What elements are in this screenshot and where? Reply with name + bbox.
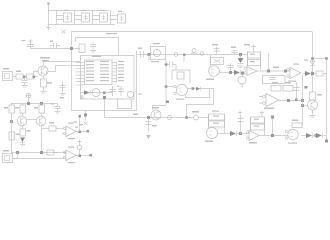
- node Y: [311, 72, 314, 75]
- transistor Q3: [127, 91, 133, 97]
- pin 7: [76, 80, 125, 81]
- wire U2A bias drop: [74, 115, 83, 131]
- transistor Q8: [238, 72, 246, 88]
- capacitor C18 polarized: [191, 49, 198, 54]
- label: [273, 67, 279, 69]
- node H2: [183, 54, 186, 57]
- op-amp U4: [259, 94, 279, 110]
- capacitor C3: [92, 10, 108, 24]
- power flag 3: [251, 45, 256, 53]
- wire pin bus: [116, 62, 118, 82]
- op-amp U2A: [62, 123, 76, 140]
- node E: [103, 92, 106, 95]
- node T: [239, 53, 242, 56]
- node F: [148, 53, 151, 56]
- node AB: [315, 134, 318, 137]
- node H: [147, 116, 150, 119]
- label Q3: [138, 94, 142, 95]
- capacitor C11: [138, 48, 144, 58]
- wire top link: [313, 58, 327, 60]
- pin 3: [76, 67, 125, 68]
- wire U4 out: [279, 100, 302, 102]
- wire inner feed: [76, 38, 119, 56]
- op-amp U6B: [246, 131, 259, 144]
- wire stub row8: [76, 84, 85, 86]
- resistor R12: [47, 150, 58, 155]
- wire rail: [210, 55, 212, 67]
- wire power drop: [271, 116, 274, 138]
- diode D2: [20, 138, 25, 147]
- label: [133, 114, 138, 116]
- shield box U1: [81, 56, 135, 100]
- label Q9: [305, 86, 308, 89]
- wire U8 out: [188, 88, 214, 90]
- resistor R10: [9, 132, 20, 140]
- pin 2: [76, 64, 125, 65]
- wire U6B out: [259, 135, 288, 137]
- pin 1: [76, 61, 125, 62]
- resistor R3: [27, 74, 34, 79]
- ground symbol: [46, 25, 51, 30]
- node circle I2: [200, 52, 204, 56]
- wire Q7 emitter: [41, 126, 43, 152]
- node V: [284, 70, 287, 73]
- node K2: [185, 116, 188, 119]
- op-amp U1 body: [85, 60, 113, 85]
- capacitor C14 polarized: [77, 145, 82, 155]
- capacitor C8: [22, 78, 28, 87]
- wire Q6-Q7 link: [27, 119, 37, 121]
- connector J2: [3, 150, 18, 163]
- transistor Q9: [301, 100, 318, 110]
- capacitor C12: [146, 118, 158, 139]
- node W: [287, 99, 290, 102]
- wire to lower bus: [105, 99, 194, 118]
- node circle S2: [192, 111, 208, 120]
- capacitor C21: [231, 47, 238, 55]
- wire U3B out: [257, 70, 290, 72]
- net junction X: [62, 30, 66, 34]
- node B: [70, 47, 73, 50]
- resistor R21: [211, 58, 224, 65]
- capacitor C4: [110, 10, 126, 24]
- pin 5: [76, 74, 125, 75]
- diode D8: [230, 131, 240, 136]
- wire feedback frame: [172, 70, 190, 83]
- op-amp U2B: [13, 147, 76, 164]
- op-amp U8: [165, 85, 188, 104]
- resistor R16: [283, 82, 293, 91]
- resistor R9: [20, 126, 31, 136]
- capacitor C22 polarized: [117, 86, 124, 97]
- resistor R1: [79, 44, 85, 53]
- wire stub down: [183, 55, 185, 63]
- capacitor C7: [90, 42, 96, 52]
- capacitor C17: [238, 111, 244, 134]
- ground Q9: [310, 110, 316, 117]
- wire emitter branch: [47, 66, 81, 76]
- transistor Q4 box: [151, 43, 166, 62]
- transistor Q6: [17, 116, 27, 126]
- node L: [10, 120, 13, 123]
- op-amp U3A: [206, 66, 219, 80]
- node M: [16, 151, 19, 154]
- resistor R15: [271, 82, 281, 91]
- wire: [240, 133, 250, 135]
- label net VCC: [106, 33, 117, 34]
- diode D9: [301, 133, 313, 138]
- wire: [268, 53, 270, 70]
- capacitor C1: [56, 10, 72, 24]
- wire stub: [148, 55, 150, 61]
- transistor Q2: [92, 89, 100, 97]
- wire to lower channel: [187, 89, 214, 118]
- wire under-box loop: [118, 99, 132, 109]
- wire outer box right: [136, 51, 138, 111]
- wire: [34, 76, 39, 78]
- wire main top bus: [72, 31, 313, 33]
- capacitor C15: [228, 63, 234, 74]
- node VCC top-left: [48, 3, 50, 5]
- resistor R4: [41, 76, 53, 93]
- wire top rail: [48, 10, 109, 12]
- node C: [23, 76, 26, 79]
- op-amp U5: [287, 64, 301, 82]
- op-amp U7: [285, 129, 298, 143]
- resistor R17: [314, 71, 327, 76]
- wire bottom rail: [11, 152, 66, 154]
- wire bottom rail: [48, 24, 115, 26]
- resistor R19 feedback: [292, 120, 302, 128]
- diode D6: [303, 71, 312, 76]
- capacitor C19 on mid vertical: [165, 62, 176, 71]
- node A: [103, 96, 106, 99]
- wire right vertical: [326, 59, 328, 142]
- diode D1: [84, 90, 90, 95]
- connector J1: [3, 68, 17, 81]
- resistor network RN4: [251, 117, 265, 135]
- label U1: [92, 56, 101, 58]
- wire Q6 collector: [22, 113, 24, 117]
- wire feedback loop: [186, 89, 210, 98]
- wire base tap: [34, 72, 39, 77]
- diode D3: [234, 70, 244, 75]
- node AA: [239, 132, 242, 135]
- diode D5 vertical: [238, 55, 244, 68]
- resistor R6: [4, 103, 15, 113]
- label pins: [81, 96, 84, 99]
- pin 4: [76, 71, 125, 72]
- resistor R2: [16, 71, 23, 80]
- power flag 4: [260, 111, 264, 118]
- wire U3A out: [219, 72, 234, 74]
- node circle G: [174, 53, 178, 57]
- capacitor C16: [294, 82, 300, 101]
- op-amp U3B: [244, 67, 257, 76]
- node K: [40, 102, 43, 105]
- wire mid vertical: [165, 60, 167, 106]
- diode D10: [313, 133, 327, 138]
- wire right bus drop: [312, 32, 314, 93]
- wire U6A out: [218, 133, 231, 135]
- resistor network RN2: [248, 52, 261, 70]
- capacitor C20: [212, 44, 220, 54]
- capacitor C10: [110, 86, 116, 96]
- resistor R5: [177, 72, 184, 79]
- node U: [267, 70, 270, 73]
- node J: [27, 102, 30, 105]
- wire left bus drop: [71, 32, 73, 111]
- node N: [40, 151, 43, 154]
- diode D11: [196, 87, 201, 91]
- resistor R11: [42, 122, 64, 131]
- capacitor C6: [50, 41, 60, 49]
- power flag: [26, 93, 31, 103]
- capacitor C13: [51, 97, 64, 113]
- wire LED row: [80, 92, 112, 94]
- label C5: [22, 40, 26, 41]
- node Z: [311, 57, 314, 60]
- label: [244, 44, 250, 46]
- transistor Q7: [36, 116, 46, 126]
- op-amp U6A: [205, 128, 218, 143]
- capacitor C5: [27, 39, 34, 48]
- power flag 2: [78, 140, 82, 146]
- wire Q7 collector: [41, 113, 43, 117]
- node AC: [325, 140, 328, 143]
- wire R6 leg: [11, 113, 13, 152]
- filter box: [263, 76, 286, 84]
- capacitor C2: [74, 10, 90, 24]
- wire analog in: [30, 48, 80, 50]
- ground stub: [84, 110, 88, 125]
- wire: [210, 54, 247, 56]
- wire U2A out: [76, 130, 89, 133]
- resistor R8: [34, 103, 45, 113]
- wire bias rail: [11, 103, 57, 105]
- node D: [33, 76, 36, 79]
- wire: [48, 3, 50, 25]
- transistor Q1: [38, 57, 50, 76]
- diode D7 on bus: [304, 60, 315, 66]
- node X: [301, 99, 304, 102]
- wire outer box bottom: [72, 110, 137, 112]
- node Z2: [325, 57, 328, 60]
- resistor network RN3: [209, 111, 225, 134]
- wire mid row: [136, 54, 210, 56]
- node circle I: [168, 116, 172, 120]
- capacitor C9: [60, 82, 66, 95]
- resistor R18: [310, 92, 323, 100]
- wire bias vertical: [302, 75, 304, 125]
- pin 6: [76, 77, 125, 78]
- transistor Q5: [151, 106, 166, 121]
- wire U2B out: [76, 154, 92, 157]
- wire collector: [44, 62, 81, 67]
- resistor R7: [15, 103, 26, 113]
- node J2: [192, 87, 195, 90]
